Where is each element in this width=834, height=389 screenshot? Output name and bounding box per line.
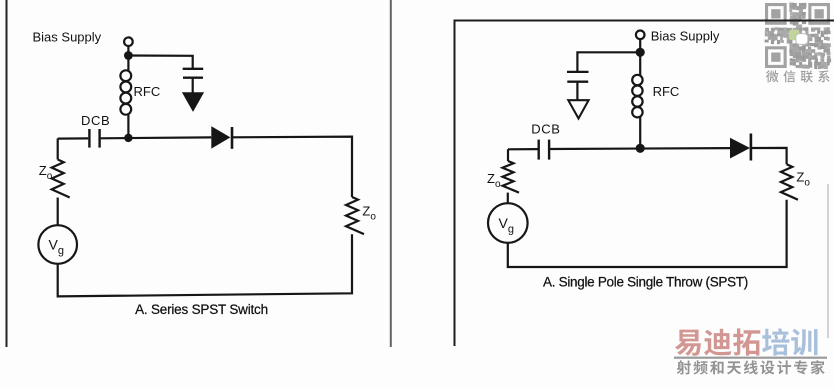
svg-text:RFC: RFC: [653, 84, 680, 99]
svg-text:Bias Supply: Bias Supply: [651, 29, 720, 44]
svg-text:RFC: RFC: [134, 84, 161, 99]
svg-text:Bias Supply: Bias Supply: [33, 29, 102, 44]
svg-text:A. Single Pole Single Throw (S: A. Single Pole Single Throw (SPST): [543, 275, 748, 290]
svg-text:A. Series SPST Switch: A. Series SPST Switch: [135, 302, 268, 317]
svg-text:DCB: DCB: [531, 122, 560, 137]
svg-text:DCB: DCB: [81, 113, 110, 128]
